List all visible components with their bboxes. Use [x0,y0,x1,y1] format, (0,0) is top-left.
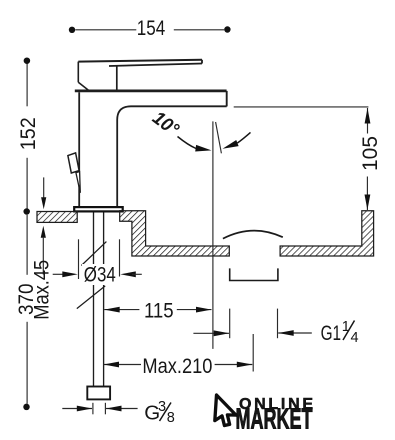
svg-text:115: 115 [144,300,174,323]
svg-text:G1: G1 [321,321,342,345]
svg-text:Max.210: Max.210 [142,355,212,378]
svg-text:154: 154 [137,17,166,40]
svg-text:Ø34: Ø34 [84,264,116,287]
svg-text:105: 105 [358,136,382,171]
svg-text:MARKET: MARKET [236,404,313,436]
svg-text:Max.45: Max.45 [31,260,54,320]
svg-text:8: 8 [167,410,175,426]
svg-text:152: 152 [17,117,40,150]
svg-text:1: 1 [342,319,350,335]
svg-text:4: 4 [351,330,359,346]
